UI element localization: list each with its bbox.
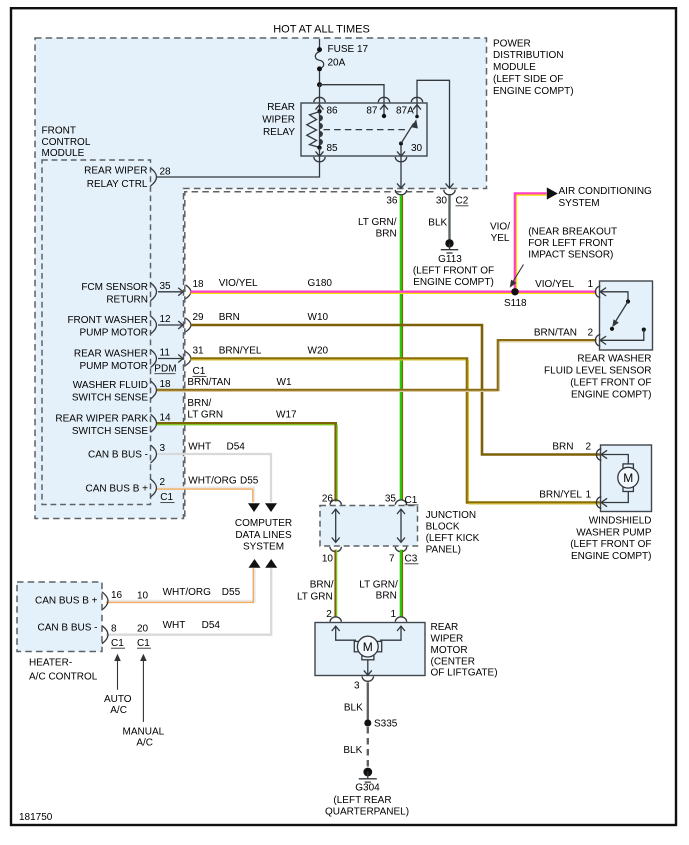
svg-text:31: 31: [193, 346, 205, 357]
svg-text:C3: C3: [405, 554, 418, 565]
PDM pass-through pin 31: [158, 358, 182, 360]
svg-text:HOT AT ALL TIMES: HOT AT ALL TIMES: [273, 24, 370, 36]
wire D55 WHT/ORG: FCM 2 to computer data lines: [157, 488, 254, 503]
junction block pin 7 / C3: [395, 547, 406, 552]
svg-text:18: 18: [193, 279, 205, 290]
svg-text:D54: D54: [202, 620, 221, 631]
svg-text:BRN/YEL: BRN/YEL: [219, 346, 262, 357]
wire: fuse to relay pin 87: [320, 85, 385, 116]
svg-text:36: 36: [386, 195, 398, 206]
svg-text:16: 16: [111, 590, 123, 601]
svg-text:ENGINE COMPT): ENGINE COMPT): [571, 551, 652, 562]
FCM inner pin box: [42, 160, 151, 505]
svg-text:30: 30: [411, 143, 423, 154]
svg-text:1: 1: [585, 489, 591, 500]
fuse 17 20A: [319, 39, 321, 48]
svg-text:CONTROL: CONTROL: [42, 137, 91, 148]
rear wiper motor M: [354, 641, 359, 651]
svg-text:BRN: BRN: [219, 312, 240, 323]
svg-text:W17: W17: [276, 410, 297, 421]
svg-text:C1: C1: [193, 366, 206, 377]
wire BLK motor to S335: [367, 682, 369, 722]
junction block pin 35 / C1: [395, 500, 406, 505]
svg-text:(CENTER: (CENTER: [431, 656, 475, 667]
svg-text:30: 30: [436, 195, 448, 206]
junction block pin 26: [330, 500, 341, 505]
svg-text:10: 10: [137, 590, 149, 601]
svg-text:AUTO: AUTO: [104, 694, 132, 705]
svg-text:LT GRN: LT GRN: [187, 410, 223, 421]
wire D55 WHT/ORG from heater A/C: [106, 568, 255, 601]
arrow to air conditioning system: [547, 187, 558, 199]
svg-text:BLK: BLK: [343, 745, 362, 756]
svg-text:2: 2: [585, 441, 591, 452]
svg-text:7: 7: [389, 553, 395, 564]
svg-text:BLK: BLK: [344, 703, 363, 714]
svg-text:W1: W1: [277, 377, 292, 388]
manual A/C leader arrow: [142, 658, 144, 722]
relay coil between 86 and 85: [319, 111, 321, 147]
svg-text:VIO/YEL: VIO/YEL: [535, 279, 574, 290]
svg-text:G180: G180: [308, 278, 333, 289]
svg-text:G304: G304: [355, 783, 380, 794]
auto A/C leader arrow: [117, 658, 119, 690]
svg-text:LT GRN/: LT GRN/: [359, 580, 398, 591]
svg-text:W20: W20: [308, 346, 329, 357]
svg-text:FUSE 17: FUSE 17: [328, 44, 369, 55]
svg-text:A/C: A/C: [110, 705, 127, 716]
PDM output pin 30 connector C2: [446, 183, 454, 188]
svg-text:FRONT WASHER: FRONT WASHER: [67, 315, 148, 326]
svg-text:28: 28: [160, 167, 172, 178]
power distribution module / front control module combined body: [35, 38, 487, 519]
relay pin 86 connector: [314, 97, 325, 102]
svg-text:WHT: WHT: [188, 442, 211, 453]
svg-text:(LEFT FRONT OF: (LEFT FRONT OF: [413, 266, 494, 277]
wire LT GRN/BRN: PDM 36 to junction block pin 35: [400, 195, 403, 500]
svg-text:BRN/TAN: BRN/TAN: [534, 328, 577, 339]
svg-text:M: M: [623, 471, 633, 485]
svg-text:JUNCTION: JUNCTION: [426, 510, 477, 521]
svg-text:C2: C2: [456, 195, 469, 206]
svg-text:MODULE: MODULE: [42, 148, 85, 159]
svg-text:87A: 87A: [396, 106, 414, 117]
svg-text:ENGINE COMPT): ENGINE COMPT): [493, 86, 574, 97]
svg-text:POWER: POWER: [493, 38, 531, 49]
svg-text:REAR WASHER: REAR WASHER: [74, 349, 148, 360]
svg-text:87: 87: [366, 106, 378, 117]
svg-text:3: 3: [160, 443, 166, 454]
svg-text:BRN/: BRN/: [310, 579, 334, 590]
ground G304: [363, 768, 372, 777]
svg-text:SWITCH SENSE: SWITCH SENSE: [72, 426, 148, 437]
svg-text:MOTOR: MOTOR: [431, 645, 468, 656]
svg-text:REAR: REAR: [431, 622, 459, 633]
svg-text:1: 1: [390, 609, 396, 620]
ground G113: [445, 239, 453, 247]
svg-text:A/C: A/C: [136, 738, 153, 749]
svg-text:C1: C1: [111, 638, 124, 649]
svg-text:VIO/: VIO/: [490, 222, 510, 233]
svg-text:REAR WIPER: REAR WIPER: [84, 166, 147, 177]
wire: relay pin 87A up and over to PDM output 30: [417, 80, 450, 187]
svg-text:REAR WASHER: REAR WASHER: [577, 354, 651, 365]
svg-text:SWITCH SENSE: SWITCH SENSE: [72, 393, 148, 404]
svg-text:AIR CONDITIONING: AIR CONDITIONING: [559, 186, 653, 197]
svg-text:2: 2: [587, 328, 593, 339]
svg-text:10: 10: [322, 553, 334, 564]
svg-text:35: 35: [160, 281, 172, 292]
svg-text:WASHER FLUID: WASHER FLUID: [73, 380, 148, 391]
svg-text:PUMP MOTOR: PUMP MOTOR: [79, 328, 148, 339]
splice S335: [364, 720, 371, 727]
wire: relay ctrl to relay pin 85: [157, 162, 320, 177]
svg-text:C1: C1: [137, 638, 150, 649]
svg-text:DATA LINES: DATA LINES: [235, 530, 292, 541]
svg-text:W10: W10: [308, 312, 329, 323]
PDM output pin 36: [397, 183, 405, 188]
svg-text:MODULE: MODULE: [493, 62, 536, 73]
svg-text:8: 8: [111, 623, 117, 634]
svg-text:WASHER PUMP: WASHER PUMP: [576, 527, 652, 538]
computer data lines system node: [248, 503, 260, 512]
wire W10 BRN: FCM 12 to windshield washer pump pin 2: [191, 325, 602, 455]
junction block internal pass-through arrows: [335, 510, 337, 542]
svg-text:YEL: YEL: [491, 233, 510, 244]
relay pin 30 down: [400, 145, 402, 188]
svg-text:D54: D54: [227, 442, 246, 453]
svg-text:HEATER-: HEATER-: [29, 658, 72, 669]
svg-text:SYSTEM: SYSTEM: [243, 542, 284, 553]
svg-text:D55: D55: [240, 476, 259, 487]
heater-A/C control module box: [17, 582, 102, 652]
svg-text:G113: G113: [438, 254, 462, 265]
junction block pin 10: [330, 547, 341, 552]
svg-text:(LEFT KICK: (LEFT KICK: [426, 533, 480, 544]
svg-text:35: 35: [385, 494, 397, 505]
svg-text:(NEAR BREAKOUT: (NEAR BREAKOUT: [528, 227, 617, 238]
wire W17 BRN/LT GRN: FCM 14 to junction block pin 26: [157, 423, 336, 501]
wire W1 BRN/TAN: FCM 18 to fluid level sensor pin 2: [157, 340, 597, 390]
svg-text:QUARTERPANEL): QUARTERPANEL): [325, 807, 409, 818]
relay pin 87A connector: [411, 97, 422, 102]
svg-text:(LEFT SIDE OF: (LEFT SIDE OF: [493, 74, 563, 85]
svg-text:BRN: BRN: [376, 229, 397, 240]
svg-text:WHT/ORG: WHT/ORG: [163, 587, 212, 598]
svg-text:(LEFT REAR: (LEFT REAR: [333, 795, 391, 806]
svg-text:BRN: BRN: [552, 441, 573, 452]
svg-text:COMPUTER: COMPUTER: [235, 518, 292, 529]
rear washer fluid level sensor box: [600, 281, 653, 350]
svg-text:M: M: [363, 640, 373, 654]
wire LT GRN/BRN: junction 7 to rear wiper motor pin 1: [400, 550, 403, 618]
PDM pass-through pin 29: [158, 324, 182, 326]
wire G180 VIO/YEL: FCM 35 to S118 to sensor pin 1: [191, 290, 597, 293]
svg-text:CAN BUS B +: CAN BUS B +: [35, 595, 98, 606]
relay pin 85: [317, 145, 321, 149]
svg-text:CAN BUS B +: CAN BUS B +: [85, 484, 148, 495]
splice S118: [511, 288, 518, 295]
svg-text:FOR LEFT FRONT: FOR LEFT FRONT: [528, 238, 613, 249]
svg-text:DISTRIBUTION: DISTRIBUTION: [493, 50, 564, 61]
svg-text:VIO/YEL: VIO/YEL: [219, 278, 258, 289]
svg-text:S118: S118: [504, 298, 527, 309]
relay switch arm 30 to 87A: [399, 142, 403, 146]
wire D54 WHT: FCM 3 to computer data lines: [157, 454, 271, 502]
motor pin 3: [367, 660, 369, 675]
svg-text:LT GRN: LT GRN: [297, 591, 333, 602]
leader arrow to S118: [513, 265, 524, 282]
svg-text:S335: S335: [374, 718, 398, 729]
svg-text:3: 3: [354, 681, 360, 692]
svg-text:86: 86: [327, 106, 339, 117]
svg-text:CAN B BUS -: CAN B BUS -: [88, 450, 148, 461]
junction block box: [320, 506, 418, 547]
wire: fuse output junction node: [317, 82, 322, 87]
svg-text:CAN B BUS -: CAN B BUS -: [37, 623, 97, 634]
svg-text:REAR: REAR: [267, 102, 295, 113]
svg-text:FCM SENSOR: FCM SENSOR: [81, 282, 148, 293]
svg-text:14: 14: [160, 412, 172, 423]
PDM pass-through pin 18: [158, 291, 182, 293]
svg-text:ENGINE COMPT): ENGINE COMPT): [571, 389, 652, 400]
svg-text:REAR WIPER PARK: REAR WIPER PARK: [55, 413, 148, 424]
relay armature dashed link: [324, 129, 406, 131]
svg-text:29: 29: [193, 312, 205, 323]
svg-text:BLOCK: BLOCK: [426, 522, 460, 533]
svg-text:PDM: PDM: [154, 363, 176, 374]
svg-text:BLK: BLK: [428, 217, 447, 228]
svg-text:1: 1: [587, 279, 593, 290]
sensor switch: [626, 299, 630, 303]
svg-text:MANUAL: MANUAL: [123, 727, 165, 738]
svg-text:IMPACT SENSOR): IMPACT SENSOR): [528, 250, 613, 261]
wire BRN/LT GRN: junction 10 to rear wiper motor pin 2: [334, 550, 337, 618]
svg-text:BRN/: BRN/: [187, 398, 211, 409]
wire: fuse to relay pin 86: [319, 85, 321, 112]
svg-text:BRN/YEL: BRN/YEL: [539, 489, 582, 500]
svg-text:26: 26: [322, 494, 334, 505]
windshield washer pump box: [601, 445, 652, 512]
windshield washer pump motor M: [623, 464, 633, 469]
svg-text:C1: C1: [160, 492, 173, 503]
svg-text:PUMP MOTOR: PUMP MOTOR: [79, 361, 148, 372]
svg-text:D55: D55: [222, 587, 241, 598]
svg-text:SYSTEM: SYSTEM: [559, 198, 600, 209]
svg-text:BRN: BRN: [376, 591, 397, 602]
svg-text:A/C CONTROL: A/C CONTROL: [29, 672, 98, 683]
svg-text:20A: 20A: [328, 58, 346, 69]
svg-text:18: 18: [160, 379, 172, 390]
svg-text:181750: 181750: [19, 812, 53, 823]
wire: BLK from PDM pin 30 to G113: [448, 195, 450, 240]
svg-text:(LEFT FRONT OF: (LEFT FRONT OF: [570, 377, 651, 388]
svg-text:11: 11: [160, 348, 171, 359]
svg-text:LT GRN/: LT GRN/: [358, 217, 397, 228]
svg-text:RELAY: RELAY: [263, 127, 295, 138]
svg-text:12: 12: [160, 314, 172, 325]
rear wiper motor box: [315, 623, 425, 676]
PDM lower connector region dashed outline: [185, 192, 434, 519]
svg-text:OF LIFTGATE): OF LIFTGATE): [431, 668, 498, 679]
svg-text:C1: C1: [405, 495, 418, 506]
svg-text:WHT/ORG: WHT/ORG: [188, 476, 237, 487]
svg-text:PANEL): PANEL): [426, 545, 461, 556]
svg-text:WINDSHIELD: WINDSHIELD: [589, 516, 652, 527]
svg-text:WIPER: WIPER: [431, 633, 464, 644]
svg-text:20: 20: [137, 623, 149, 634]
relay pin 87 connector: [378, 97, 389, 102]
svg-text:RELAY CTRL: RELAY CTRL: [87, 179, 148, 190]
svg-text:WHT: WHT: [163, 620, 186, 631]
svg-text:FLUID LEVEL SENSOR: FLUID LEVEL SENSOR: [544, 366, 651, 377]
svg-text:2: 2: [160, 477, 166, 488]
svg-text:(LEFT FRONT OF: (LEFT FRONT OF: [570, 539, 651, 550]
wire BLK S335 to G304 (dashed): [367, 727, 369, 768]
wire VIO/YEL up to air conditioning system: [515, 194, 547, 293]
wire D54 WHT from heater A/C: [106, 568, 271, 635]
svg-text:WIPER: WIPER: [262, 115, 295, 126]
wire W20 BRN/YEL: FCM 11 to pump pin 1: [191, 359, 602, 503]
svg-text:FRONT: FRONT: [42, 125, 76, 136]
svg-text:BRN/TAN: BRN/TAN: [187, 377, 230, 388]
svg-text:RETURN: RETURN: [106, 294, 148, 305]
svg-text:85: 85: [327, 143, 339, 154]
rear wiper relay box: [301, 103, 427, 156]
svg-text:ENGINE COMPT): ENGINE COMPT): [413, 277, 494, 288]
